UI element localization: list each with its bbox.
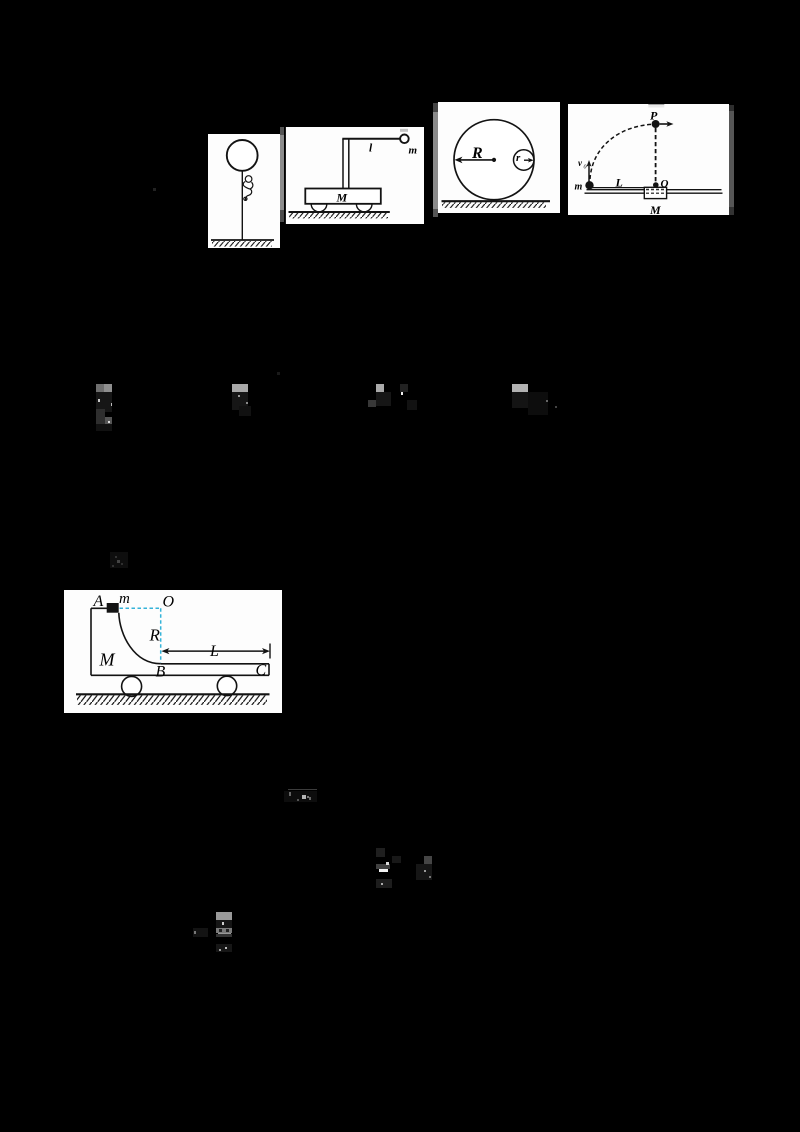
dashed lines through block (646, 187, 666, 189)
gray strip right of fig4 (729, 105, 735, 111)
wheel right (356, 204, 372, 212)
R radius arrow (460, 159, 494, 161)
figure 5 box: cart M with quarter-circle ramp ABC (64, 590, 282, 713)
faint dot near fig1 (153, 188, 156, 191)
right tick of L arrow (269, 643, 271, 658)
center dot (492, 158, 496, 162)
cart right edge (268, 663, 270, 675)
fragment 2 (232, 384, 248, 392)
svg-text:O: O (660, 178, 668, 190)
ground hatching fig5 (77, 695, 267, 705)
dashed cyan horizontal m to O (119, 607, 160, 609)
pole on cart (342, 139, 344, 189)
ground line fig1 (211, 239, 274, 241)
formula sqrt(2gh) fragment y~790 (288, 789, 317, 791)
table line lower (584, 192, 722, 194)
vertical dashed line P to O (654, 128, 656, 183)
faint mark y~552 (110, 552, 128, 568)
svg-text:m: m (574, 182, 582, 193)
svg-text:P: P (650, 109, 658, 123)
svg-text:0: 0 (583, 165, 586, 171)
deck top line B to C (160, 662, 268, 664)
table line middle (586, 189, 721, 191)
faint notch at fig4 top (648, 104, 664, 105)
quarter ramp arc (118, 612, 160, 663)
balloon (227, 140, 258, 171)
cart body (305, 189, 381, 204)
P dot (651, 120, 659, 128)
gray notch at fig2 top (400, 129, 408, 132)
rope (241, 171, 243, 240)
svg-text:R: R (471, 145, 483, 162)
wheel left fig5 (121, 676, 141, 696)
horizontal arm (342, 138, 400, 140)
fragment 4 (512, 384, 528, 392)
svg-text:m: m (409, 145, 418, 157)
O dot (653, 182, 659, 188)
svg-text:M: M (649, 203, 661, 215)
top ledge (91, 607, 108, 609)
v0 arrow (588, 164, 590, 182)
formula fragment y~905-952 (216, 912, 233, 920)
block M (644, 187, 666, 198)
svg-text:O: O (162, 593, 174, 610)
velocity arrow at P (659, 123, 668, 125)
ground line fig5 (76, 693, 270, 695)
svg-text:L: L (209, 643, 219, 660)
table line upper (m to block) (586, 187, 644, 189)
formula fraction fragment y~848-888 (376, 848, 385, 857)
svg-text:v: v (578, 158, 583, 168)
tiny speck (277, 372, 280, 375)
gray strip left of fig3 (433, 103, 438, 112)
ball m (400, 135, 409, 144)
svg-text:m: m (119, 591, 130, 607)
small r arrow (524, 159, 530, 161)
gray strip between fig1 and fig2 (280, 127, 284, 135)
dashed cyan vertical O to B (159, 608, 161, 662)
person climbing rope (243, 176, 253, 201)
fragment 1 (96, 384, 104, 392)
figure 3 box: large circle R with small circle r (433, 102, 560, 213)
svg-text:B: B (155, 663, 165, 680)
m dot (585, 181, 593, 189)
svg-text:R: R (148, 625, 160, 644)
svg-text:C: C (255, 662, 266, 679)
ground hatching fig2 (289, 213, 388, 218)
wheel left (311, 204, 327, 212)
block m (black square) (106, 603, 118, 613)
L arrow double headed (165, 650, 267, 652)
cart bottom (91, 674, 269, 676)
svg-text:M: M (336, 191, 348, 205)
ground hatching fig3 (442, 202, 546, 208)
dashed trajectory curve (590, 124, 653, 179)
ground line fig2 (289, 211, 390, 213)
ground hatching fig1 (212, 241, 272, 247)
small circle r (514, 150, 534, 170)
ground line fig3 (442, 200, 551, 202)
figure 1 box: balloon with climbing person (208, 134, 280, 248)
svg-text:L: L (614, 176, 622, 190)
figure 4 box: projectile m to P above block M (568, 104, 730, 215)
svg-text:r: r (516, 152, 521, 164)
figure 2 box: cart M with pole, arm l and ball m (284, 127, 424, 224)
cart left wall (90, 608, 92, 675)
big circle R (454, 120, 534, 200)
svg-text:A: A (92, 593, 103, 610)
fragment 3 (376, 384, 384, 392)
svg-text:M: M (98, 649, 115, 669)
wheel right fig5 (217, 676, 236, 695)
